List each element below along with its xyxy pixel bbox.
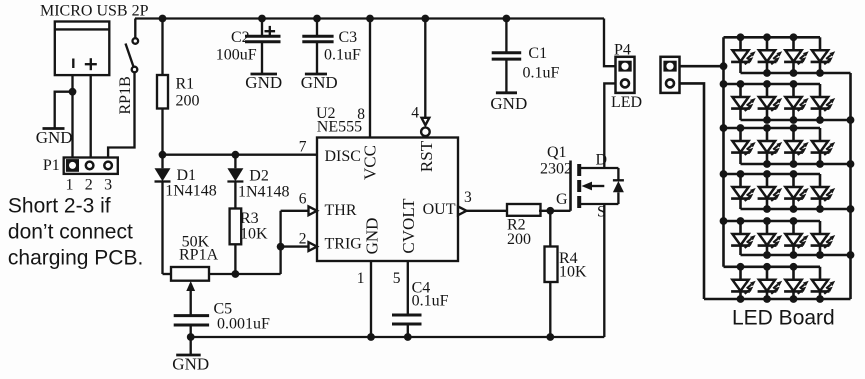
svg-text:D1: D1	[177, 167, 197, 184]
svg-text:0.1uF: 0.1uF	[412, 293, 449, 310]
svg-text:TRIG: TRIG	[325, 236, 363, 253]
svg-text:THR: THR	[325, 202, 357, 219]
svg-text:CVOLT: CVOLT	[399, 198, 418, 254]
svg-text:1N4148: 1N4148	[165, 183, 217, 200]
svg-text:0.001uF: 0.001uF	[217, 316, 270, 333]
svg-text:1: 1	[66, 177, 74, 194]
svg-text:GND: GND	[36, 128, 73, 147]
svg-text:200: 200	[176, 93, 200, 110]
svg-text:8: 8	[357, 106, 365, 123]
svg-text:3: 3	[464, 189, 472, 206]
svg-text:D: D	[596, 152, 608, 169]
svg-text:5: 5	[393, 270, 401, 287]
svg-text:OUT: OUT	[423, 201, 456, 218]
svg-text:NE555: NE555	[317, 119, 362, 136]
svg-text:10K: 10K	[240, 226, 268, 243]
svg-text:4: 4	[411, 105, 419, 122]
svg-text:6: 6	[299, 191, 307, 208]
svg-text:2: 2	[85, 177, 93, 194]
svg-text:2: 2	[299, 231, 307, 248]
svg-text:0.1uF: 0.1uF	[523, 65, 560, 82]
svg-text:200: 200	[507, 231, 531, 248]
svg-text:GND: GND	[172, 355, 209, 374]
svg-text:DISC: DISC	[325, 148, 361, 165]
svg-text:MICRO USB 2P: MICRO USB 2P	[40, 3, 149, 20]
svg-text:10K: 10K	[559, 264, 587, 281]
svg-text:7: 7	[299, 139, 307, 156]
svg-text:LED Board: LED Board	[732, 307, 835, 330]
svg-text:RST: RST	[417, 140, 436, 172]
svg-text:1N4148: 1N4148	[238, 183, 290, 200]
svg-text:RP1A: RP1A	[179, 247, 219, 264]
svg-text:S: S	[597, 204, 606, 221]
svg-text:Short 2-3 if: Short 2-3 if	[8, 195, 111, 218]
svg-text:100uF: 100uF	[216, 46, 257, 63]
svg-text:don’t connect: don’t connect	[8, 221, 133, 244]
svg-text:R3: R3	[240, 210, 259, 227]
svg-text:charging PCB.: charging PCB.	[8, 247, 143, 270]
svg-text:C1: C1	[528, 45, 547, 62]
svg-text:VCC: VCC	[361, 145, 380, 180]
svg-text:GND: GND	[245, 73, 282, 92]
svg-text:D2: D2	[249, 168, 269, 185]
svg-text:R1: R1	[176, 76, 195, 93]
svg-text:3: 3	[104, 177, 112, 194]
svg-text:1: 1	[357, 270, 365, 287]
svg-text:RP1B: RP1B	[117, 76, 134, 114]
svg-text:GND: GND	[490, 94, 527, 113]
svg-text:C2: C2	[231, 29, 250, 46]
svg-text:GND: GND	[301, 73, 338, 92]
svg-text:GND: GND	[363, 218, 382, 255]
svg-text:P1: P1	[43, 157, 60, 174]
svg-text:Q1: Q1	[547, 144, 567, 161]
svg-text:C3: C3	[339, 29, 358, 46]
svg-text:G: G	[556, 191, 568, 208]
svg-text:P4: P4	[614, 42, 631, 59]
svg-text:0.1uF: 0.1uF	[324, 46, 361, 63]
svg-text:LED: LED	[611, 94, 642, 111]
svg-text:2302: 2302	[540, 161, 572, 178]
